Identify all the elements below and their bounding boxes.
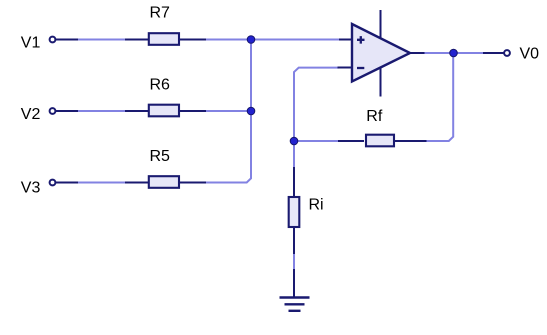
wire Ri top pin	[293, 167, 295, 197]
wire node C to Rf lavender	[294, 140, 339, 142]
wire node C down lavender to Ri	[293, 141, 295, 168]
resistor Rf	[366, 135, 394, 147]
wire minus input from node C up and right	[294, 68, 339, 141]
wire V3 terminal pin dark	[56, 182, 79, 184]
wire R6 left pin	[125, 110, 149, 112]
svg-text:V2: V2	[21, 106, 41, 123]
wire R5 left pin	[125, 182, 149, 184]
resistor R6	[149, 105, 179, 117]
node B junction dot	[247, 107, 255, 115]
wire Rf right pin	[394, 140, 427, 142]
wire V1 terminal pin dark	[56, 39, 79, 41]
wire op-amp output pin dark	[409, 52, 425, 54]
wire op-amp minus input pin dark	[338, 67, 352, 69]
resistor Ri	[289, 197, 300, 227]
svg-text:R5: R5	[150, 148, 171, 165]
svg-text:Ri: Ri	[309, 197, 324, 214]
op-amp U1 positive power pin	[380, 10, 382, 39]
terminal V1	[50, 37, 56, 43]
wire V3 lavender segment	[77, 182, 126, 184]
node C junction dot	[290, 137, 298, 145]
op-amp U1 triangle body	[352, 24, 410, 82]
wire ground pin dark	[293, 269, 295, 297]
wire Rf left pin	[338, 140, 364, 142]
wire V2 lavender segment	[77, 110, 126, 112]
wire Rf right with corner up to node D	[426, 53, 454, 141]
node A junction dot	[247, 36, 255, 44]
wire V0 terminal pin dark	[483, 52, 504, 54]
ground	[280, 298, 310, 311]
svg-text:V1: V1	[21, 35, 41, 52]
wire op-amp output lavender to node D	[424, 52, 455, 54]
wire R6 right pin	[180, 110, 206, 112]
resistor R7	[149, 33, 179, 45]
wire R5 right pin	[180, 182, 206, 184]
wire R7 left pin	[125, 39, 149, 41]
wire node B down with corner to V3 row	[205, 111, 251, 183]
wire V1 lavender segment	[77, 39, 126, 41]
wire node A to op-amp plus input	[251, 39, 340, 41]
wire V2 lavender to node B	[205, 110, 252, 112]
wire below Ri lavender	[293, 253, 295, 270]
resistor R5	[149, 176, 179, 188]
wire R7 right pin	[180, 39, 206, 41]
svg-text:Rf: Rf	[366, 108, 383, 125]
wire vertical trunk node A to node B	[250, 40, 252, 112]
wire V2 terminal pin dark	[56, 110, 79, 112]
terminal V0	[504, 50, 510, 56]
terminal V3	[50, 180, 56, 186]
wire V1 lavender to node A	[205, 39, 252, 41]
terminal V2	[50, 108, 56, 114]
op-amp U1 minus symbol	[357, 67, 364, 69]
op-amp U1 plus symbol	[357, 36, 365, 44]
svg-text:V0: V0	[520, 46, 540, 63]
wire op-amp plus input pin dark	[339, 39, 352, 41]
svg-text:R7: R7	[150, 5, 171, 22]
svg-text:R6: R6	[150, 77, 171, 94]
wire Ri bottom pin	[293, 227, 295, 254]
node D junction dot	[450, 49, 458, 57]
svg-text:V3: V3	[21, 180, 41, 197]
wire node D to V0 terminal lavender	[453, 52, 484, 54]
op-amp U1 negative power pin	[380, 67, 382, 97]
